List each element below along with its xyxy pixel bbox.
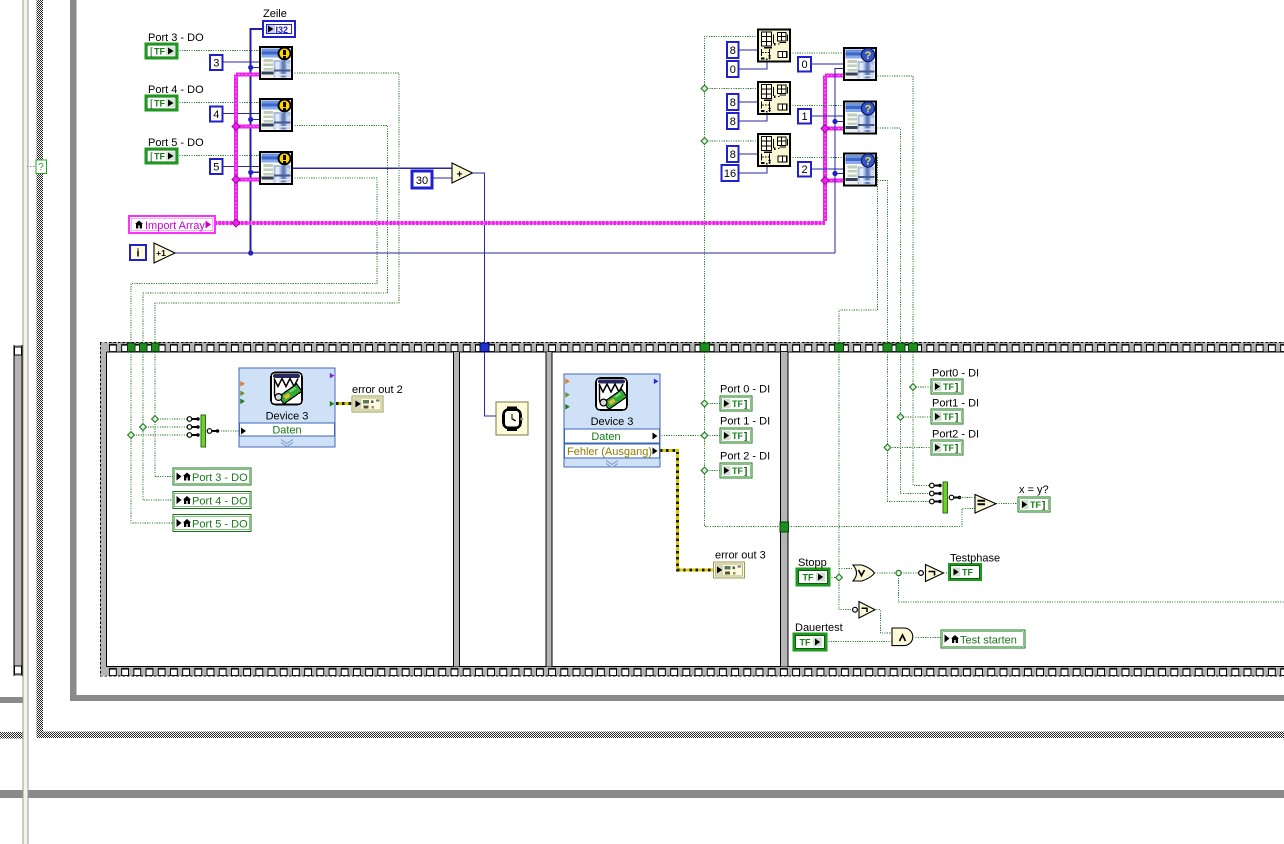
svg-text:]: ] [955,444,958,455]
svg-text:TF: TF [154,152,165,162]
svg-text:error out 2: error out 2 [352,384,403,396]
svg-text:i: i [136,248,139,260]
boolean array control Port 3 - DO [146,44,177,58]
green diamond frame4 port2 [884,444,891,451]
svg-text:Import Array: Import Array [145,220,205,232]
green diamond frame4 port0 [910,384,917,391]
array subset node 2 [758,82,790,114]
iteration terminal i [130,245,146,260]
boolean control Dauertest [794,634,826,650]
sequence bottom border (film strip) [100,667,1284,676]
wire vi1 output down to frame4 [875,76,913,343]
array subset node 3 [758,134,790,166]
local variable Import Array [129,216,215,233]
numeric constant 8 [727,94,739,110]
svg-text:8: 8 [730,45,736,57]
thick gray pane border vertical [70,0,77,701]
svg-text:1: 1 [801,111,807,123]
svg-text:]: ] [955,383,958,394]
add node [452,163,472,183]
wire frame1 net A from tunnel3 [155,352,187,477]
svg-text:TF: TF [962,568,973,578]
thick gray pane border horizontal bottom [0,790,1284,798]
equal? comparison node [975,495,996,514]
svg-text:]: ] [744,432,747,443]
svg-text:Port 3 - DO: Port 3 - DO [192,472,248,484]
svg-text:4: 4 [213,109,219,121]
wire AS3 output to vi3 [790,157,844,159]
green diamond Port2-DI branch [701,467,708,474]
tunnel frame3 green [700,343,710,352]
green diamond frame4 stopp [836,574,843,581]
wire vi3 side branch down to frame4 [839,158,878,343]
wire I32 Zeile vertical [251,29,263,253]
junction dot I32-icon3 [248,170,253,175]
error wire frame3 [660,451,714,570]
hatched splitter vertical strip [37,0,44,738]
junction dot I32-icon1 [248,65,253,70]
green diamond Port0-DI branch [701,400,708,407]
svg-text:Device 3: Device 3 [591,416,634,428]
numeric constant 30 [412,171,432,188]
numeric constant 0 [798,57,811,72]
numeric constant 0 [727,61,739,77]
svg-text:Port 2 - DI: Port 2 - DI [720,451,770,463]
wire increment output [175,252,835,254]
svg-text:0: 0 [801,59,807,71]
wire const1 to vi2 [811,115,844,117]
svg-text:30: 30 [416,175,428,187]
boolean indicator Testphase [949,564,981,580]
I32 indicator Zeile [263,21,295,37]
svg-text:Port 4 - DO: Port 4 - DO [148,84,204,96]
pink junction diamond at import wire [232,219,240,227]
svg-text:?: ? [865,50,872,62]
svg-text:TF: TF [800,638,811,648]
tunnel frame1 green 2 [140,343,148,352]
svg-text:TF: TF [1030,500,1041,510]
svg-text:Port 5 - DO: Port 5 - DO [148,137,204,149]
svg-text:[: [ [150,47,153,58]
pink cluster wire right vertical [825,76,844,222]
svg-text:Zeile: Zeile [263,8,287,20]
junction dot increment wire [248,250,253,255]
wire frame1 build array to Daten [216,430,240,432]
pink junction diamond right icon2 [821,125,829,133]
numeric constant 4 [210,107,223,122]
svg-text:3: 3 [213,58,219,70]
svg-text:Dauertest: Dauertest [795,622,843,634]
wire not2 to and gate [874,610,892,633]
wire increment vertical right [835,69,844,254]
svg-text:]: ] [744,467,747,478]
build array node (frame 4) [930,482,976,513]
svg-text:[: [ [150,99,153,110]
svg-text:Port2 - DI: Port2 - DI [932,429,979,441]
tunnel frame1 green 3 [152,343,160,352]
svg-text:?: ? [38,162,44,173]
wire const8b to AS2 [738,101,758,103]
wire frame4 port1 net [901,352,932,494]
express VI DAQ Assistant Device 3 (frame 3) [564,374,660,468]
sequence left border [100,343,107,677]
boolean indicator Port0 - DI [931,379,963,394]
svg-text:TF: TF [732,466,743,476]
array subset node 1 [758,30,790,62]
cluster indicator error out 2 [352,396,383,412]
wire add output to wait tunnel [472,173,484,343]
green diamond Daten junction [701,432,708,439]
wire AS1 output to vi1 [790,52,844,54]
subVI icon left 3 (warning) [260,152,292,184]
wire const3 to icon1 [222,61,260,63]
svg-text:x = y?: x = y? [1019,484,1049,496]
svg-text:2: 2 [801,164,807,176]
pink cluster wire Import Array horizontal [215,222,825,224]
svg-text:TF: TF [154,99,165,109]
tunnel frame4 green b [883,343,892,352]
green diamond frame1 row3 [128,432,135,439]
wire const4 to icon2 [222,113,260,115]
label Port 0 - DI [720,384,770,396]
label Port2 - DI [932,429,979,441]
svg-text:TF: TF [943,412,954,422]
tunnel frame4 green d [909,343,918,352]
wire const0 to vi1 [811,63,844,65]
wire frame4 equal bottom input [789,509,976,527]
svg-text:+: + [457,170,463,181]
label error out 3 [715,550,766,562]
svg-text:8: 8 [730,97,736,109]
pink junction diamond right icon3 [821,177,829,185]
wire frame4 long output [899,573,1284,602]
green diamond frame1 row2 [140,424,147,431]
svg-text:Port0 - DI: Port0 - DI [932,368,979,380]
green diamond AS2 branch [701,85,708,92]
numeric constant 3 [210,55,223,70]
numeric constant 8 [727,113,739,129]
svg-text:Stopp: Stopp [798,557,827,569]
label Testphase [950,553,1000,565]
label Port 1 - DI [720,416,770,428]
cluster indicator error out 3 [714,562,745,578]
svg-text:TF: TF [732,431,743,441]
pink junction diamond left icon3 [232,176,240,184]
svg-text:8: 8 [730,149,736,161]
svg-text:8: 8 [730,116,736,128]
svg-text:Port 3 - DO: Port 3 - DO [148,32,204,44]
junction circle frame4 [896,570,901,575]
svg-text:5: 5 [213,162,219,174]
frame separator 3 [780,352,789,667]
svg-text:Port 1 - DI: Port 1 - DI [720,416,770,428]
subVI icon left 1 (warning) [260,47,292,79]
boolean array control Port 5 - DO [146,149,177,163]
wait ms timer node (frame 2) [496,402,528,435]
not gate 2 [853,602,875,619]
local variable Port 3 - DO [173,468,251,485]
wire Daten frame3 to Port1-DI [659,435,720,437]
svg-text:Port 0 - DI: Port 0 - DI [720,384,770,396]
wire const2 to vi3 [811,168,844,170]
svg-text:]: ] [955,413,958,424]
partial sequence structure at far left [14,345,23,676]
wire const8c to AS2 [738,114,767,121]
svg-text:Port 5 - DO: Port 5 - DO [192,518,248,530]
increment node +1 [154,243,175,263]
label Port 3 - DO [148,32,204,44]
svg-text:I32: I32 [276,25,289,35]
wire vi3 output down to frame4 [875,181,888,343]
numeric constant 8 [727,146,739,162]
svg-text:Daten: Daten [272,425,301,437]
wire boolean Port5-DO to icon3 [177,155,260,157]
svg-text:Daten: Daten [591,431,620,443]
svg-text:TF: TF [943,443,954,453]
wire icon1 boolean output loop [155,73,399,343]
wire icon3 boolean output loop [131,178,377,343]
svg-text:]: ] [1042,501,1045,512]
wire array net inside frame3 [705,352,781,527]
thick gray pane border horizontal top [0,695,1284,703]
svg-text:0: 0 [730,64,736,76]
boolean indicator Port 0 - DI [720,396,752,411]
hatched splitter horizontal strip [0,732,1284,739]
wire frame4 port2 net [888,352,932,502]
junction dot right vi2 [832,119,837,124]
label Dauertest [795,622,843,634]
label Port1 - DI [932,398,979,410]
svg-text:Device 3: Device 3 [266,411,309,423]
not gate 1 [919,565,944,582]
wire wait tunnel to wait icon [485,352,497,416]
sequence top border (film strip) [100,343,1284,352]
wire vi2 output down to frame4 [875,128,901,343]
junction dot I32-icon2 [248,117,253,122]
subVI icon right 3 (question) [844,154,876,186]
junction dot right vi3 [832,171,837,176]
label Port 5 - DO [148,137,204,149]
label Zeile [263,8,287,20]
numeric constant 2 [798,162,811,177]
wire and gate to Test starten [916,637,942,639]
probe ? box on left wire [27,160,47,174]
numeric constant 16 [722,165,739,181]
wire Dauertest to and gate [826,641,892,643]
error wire frame1 [336,402,352,405]
frame separator 2 [546,352,553,667]
svg-text:error out 3: error out 3 [715,550,766,562]
wire frame4 port0 net [913,352,931,486]
wire frame4 stop net [829,352,855,610]
boolean indicator Port 2 - DI [720,463,752,478]
pink junction diamond left icon2 [232,123,240,131]
label error out 2 [352,384,403,396]
pink cluster wire left vertical [236,75,260,222]
green diamond frame4 port1 [897,414,904,421]
tunnel frame3-4 side green [780,522,789,532]
tunnel frame4 green a [835,343,844,352]
svg-text:?: ? [865,156,872,168]
svg-text:Test starten: Test starten [960,635,1017,647]
express VI DAQ Assistant Device 3 (frame 1) [239,368,335,447]
green diamond AS3 branch [701,138,708,145]
wire icon2 boolean output loop [143,126,388,343]
boolean indicator Port1 - DI [931,409,963,424]
and gate [892,628,913,646]
boolean indicator Port2 - DI [931,440,963,455]
green diamond frame1 row1 [152,416,159,423]
svg-text:TF: TF [732,399,743,409]
subVI icon right 2 (question) [844,102,876,134]
wire array net vertical to frame3 [705,36,759,343]
subVI icon left 2 (warning) [260,99,292,131]
label Stopp [798,557,827,569]
local variable Port 4 - DO [173,492,251,509]
wire const16 to AS3 [738,166,767,173]
tunnel frame2 blue [480,343,489,352]
wire frame1 net B from tunnel2 [143,352,187,500]
svg-text:]: ] [744,400,747,411]
numeric constant 8 [727,42,739,58]
numeric constant 1 [798,109,811,124]
svg-text:TF: TF [803,573,814,583]
label x = y? [1019,484,1049,496]
label Port 2 - DI [720,451,770,463]
boolean indicator x = y? [1018,497,1050,512]
boolean array control Port 4 - DO [146,96,177,110]
wire equal output to x=y [996,503,1018,505]
wire AS2 output to vi2 [790,105,844,107]
wire const0a to AS1 [738,62,767,70]
boolean control Stopp [797,569,829,585]
tunnel frame4 green c [896,343,905,352]
svg-text:Testphase: Testphase [950,553,1000,565]
build array node (frame 1) [187,415,219,447]
wire frame4 or to not [875,572,920,574]
local variable Port 5 - DO [173,515,251,532]
wire const5 to icon3 [222,166,260,168]
label Port 4 - DO [148,84,204,96]
svg-text:Port1 - DI: Port1 - DI [932,398,979,410]
svg-text:+1: +1 [156,248,166,258]
wire const8d to AS3 [738,153,758,155]
boolean indicator Port 1 - DI [720,428,752,443]
label Port0 - DI [932,368,979,380]
wire boolean Port3-DO to icon1 [177,50,260,52]
svg-text:TF: TF [943,382,954,392]
svg-text:[: [ [150,152,153,163]
wire icon3 numeric output to add [292,167,452,169]
svg-text:16: 16 [724,168,736,180]
numeric constant 5 [210,159,223,174]
svg-text:Port 4 - DO: Port 4 - DO [192,495,248,507]
wire const8a to AS1 [738,49,758,51]
subVI icon right 1 (question) [844,48,876,80]
wire const30 to add [432,177,452,179]
svg-text:Fehler (Ausgang): Fehler (Ausgang) [567,446,652,458]
local variable Test starten [941,630,1025,648]
frame separator 1 [453,352,460,667]
wire not1 to Testphase [944,572,950,574]
svg-text:TF: TF [154,47,165,57]
scrollbar-like beige vertical line [23,0,29,844]
wire frame1 net C from tunnel1 [131,352,187,523]
svg-text:?: ? [865,104,872,116]
or gate [853,565,875,581]
tunnel frame1 green 1 [128,343,136,352]
wire boolean Port4-DO to icon2 [177,102,260,104]
